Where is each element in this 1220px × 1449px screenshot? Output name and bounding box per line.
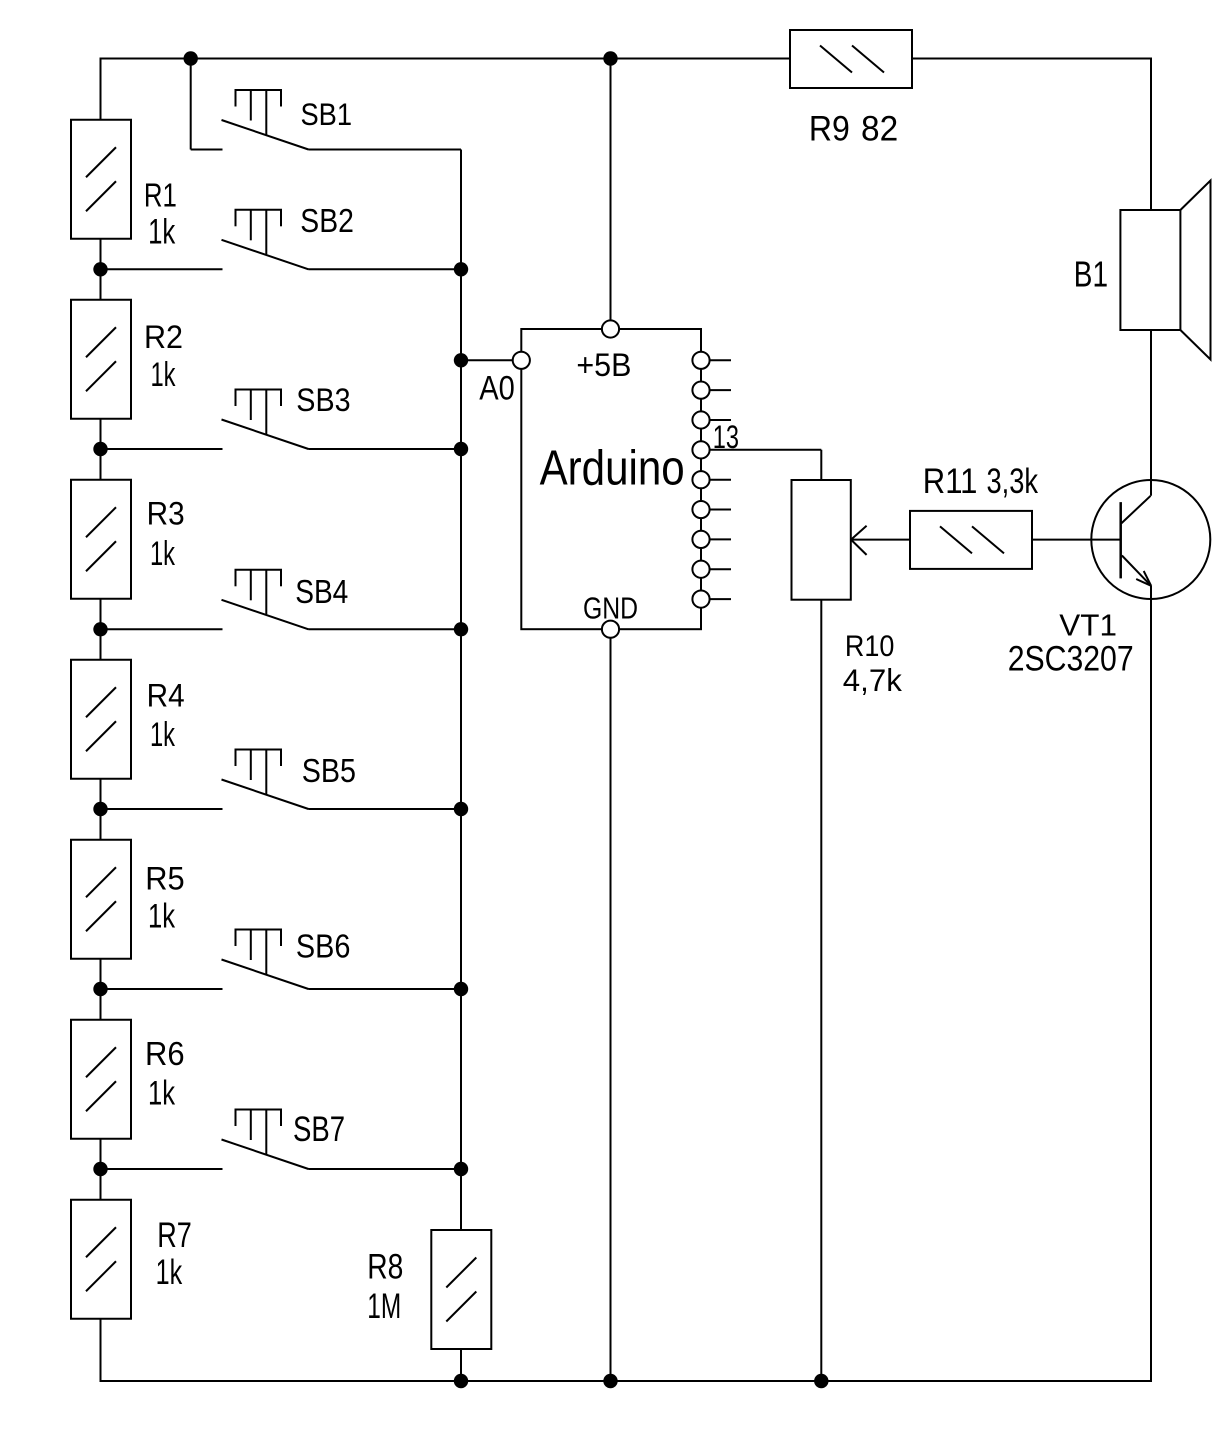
wire: R10 wiper to R11 <box>851 539 911 541</box>
resistor R1 <box>71 120 131 239</box>
label 3,3k <box>987 461 1039 501</box>
label R3 <box>147 495 185 531</box>
pin D9 <box>692 591 709 608</box>
label R8 <box>367 1247 403 1287</box>
label SB3 <box>296 381 350 418</box>
pin GND <box>602 621 619 638</box>
node: SB7 on A0 bus <box>454 1162 468 1176</box>
wire: bottom ground rail <box>100 1380 1153 1382</box>
wire: junction to SB7 contact <box>101 1168 223 1170</box>
node: SB4 on A0 bus <box>454 622 468 636</box>
pin 13 <box>692 441 709 458</box>
label VT1 <box>1059 608 1117 643</box>
wire: SB6 output to bus <box>309 988 462 990</box>
label 2SC3207 <box>1008 638 1134 678</box>
svg-text:SB7: SB7 <box>293 1109 345 1149</box>
label +5B <box>576 347 631 383</box>
pin +5B <box>602 320 619 337</box>
pushbutton SB2 <box>222 210 309 269</box>
node: R5-R6 junction <box>93 982 107 996</box>
label R1 <box>144 177 177 214</box>
wire: speaker-collector vertical <box>1150 59 1152 496</box>
svg-text:R10: R10 <box>845 630 894 664</box>
svg-text:82: 82 <box>861 110 898 149</box>
node: R2-R3 junction <box>93 442 107 456</box>
label SB7 <box>293 1109 345 1149</box>
wire: SB1 drop from +5V rail <box>191 59 223 150</box>
pushbutton SB3 <box>222 390 309 450</box>
svg-text:1k: 1k <box>156 1254 183 1292</box>
node: R4-R5 junction <box>93 802 107 816</box>
resistor R3 <box>71 480 131 599</box>
svg-text:R4: R4 <box>147 677 185 713</box>
label 1k <box>148 1075 176 1112</box>
wire: junction to SB4 contact <box>101 628 223 630</box>
label 1k <box>156 1254 183 1292</box>
svg-text:1M: 1M <box>367 1286 401 1326</box>
label GND <box>583 591 638 625</box>
transistor VT1 <box>1091 480 1210 599</box>
label SB2 <box>300 202 354 240</box>
label R9 <box>809 109 850 149</box>
wire: SB3 output to bus <box>309 448 462 450</box>
wire: A0 sense bus <box>460 150 462 1382</box>
label R4 <box>147 677 185 713</box>
wire: junction to SB2 contact <box>101 268 223 270</box>
pushbutton SB4 <box>222 570 309 630</box>
svg-text:1k: 1k <box>148 1075 176 1112</box>
node: SB1 tap on +5V rail <box>184 51 198 65</box>
wire: SB1 output to bus <box>309 149 462 151</box>
svg-text:1k: 1k <box>151 356 176 394</box>
label B1 <box>1074 254 1108 294</box>
resistor R6 <box>71 1020 131 1139</box>
wire: pin 13 to R10 <box>710 450 821 1381</box>
wire: Arduino right pin stub 3 <box>710 419 731 421</box>
svg-text:1k: 1k <box>150 535 175 573</box>
pin A0 <box>513 352 530 369</box>
svg-text:4,7k: 4,7k <box>843 663 902 698</box>
node: SB5 on A0 bus <box>454 802 468 816</box>
resistor R5 <box>71 840 131 959</box>
resistor R8 <box>431 1230 491 1349</box>
wire: Arduino right pin stub 9 <box>710 598 731 600</box>
node: R10 on ground rail <box>814 1374 828 1388</box>
resistor R7 <box>71 1200 131 1319</box>
wire: emitter to ground rail <box>1150 586 1152 1381</box>
pushbutton SB6 <box>222 930 309 990</box>
resistor R9 <box>790 30 912 88</box>
svg-text:2SC3207: 2SC3207 <box>1008 638 1134 678</box>
wire: SB4 output to bus <box>309 628 462 630</box>
label SB5 <box>302 752 356 790</box>
label R2 <box>144 319 183 355</box>
wire: A0 pin connection <box>461 359 521 361</box>
label 1k <box>148 898 176 935</box>
label 1k <box>150 535 175 573</box>
svg-text:3,3k: 3,3k <box>987 461 1039 501</box>
wire: +5V / GND drop through Arduino <box>610 59 612 1382</box>
label 1k <box>150 716 175 754</box>
svg-text:R9: R9 <box>809 109 850 149</box>
wire: +5V top rail <box>100 58 1153 60</box>
label SB6 <box>296 927 351 965</box>
wire: junction to SB5 contact <box>101 808 223 810</box>
svg-text:R7: R7 <box>157 1216 192 1255</box>
node: R1-R2 junction <box>93 262 107 276</box>
pin D6 <box>692 501 709 518</box>
node: R3-R4 junction <box>93 622 107 636</box>
svg-text:GND: GND <box>583 591 638 625</box>
svg-text:13: 13 <box>713 420 739 457</box>
speaker B1 <box>1120 181 1210 360</box>
svg-text:R1: R1 <box>144 177 177 214</box>
svg-text:A0: A0 <box>479 368 515 407</box>
wire: Arduino right pin stub 7 <box>710 538 731 540</box>
label 13 <box>713 420 739 457</box>
wire: SB5 output to bus <box>309 808 462 810</box>
wire: junction to SB3 contact <box>101 448 223 450</box>
wire: Arduino right pin stub 6 <box>710 509 731 511</box>
svg-text:B1: B1 <box>1074 254 1108 294</box>
resistor R2 <box>71 300 131 419</box>
label R5 <box>145 860 184 897</box>
label R7 <box>157 1216 192 1255</box>
label 1k <box>148 213 176 252</box>
node: +5V feed on rail <box>603 51 617 65</box>
svg-text:+5B: +5B <box>576 347 631 383</box>
wire: SB2 output to bus <box>309 268 462 270</box>
svg-text:SB3: SB3 <box>296 381 350 418</box>
IC U1 Arduino box <box>521 329 701 629</box>
label R6 <box>145 1035 185 1072</box>
label R10 <box>845 630 894 664</box>
label 82 <box>861 110 898 149</box>
label 4,7k <box>843 663 902 698</box>
wire: Arduino right pin stub 5 <box>710 479 731 481</box>
svg-text:1k: 1k <box>150 716 175 754</box>
svg-text:1k: 1k <box>148 213 176 252</box>
pin D3 <box>692 411 709 428</box>
pin D1 <box>692 352 709 369</box>
pushbutton SB5 <box>222 750 309 810</box>
node: SB3 on A0 bus <box>454 442 468 456</box>
label R11 <box>923 462 978 501</box>
pushbutton SB7 <box>222 1110 309 1170</box>
svg-text:R2: R2 <box>144 319 183 355</box>
wire: Arduino right pin stub 1 <box>710 359 731 361</box>
pin D8 <box>692 561 709 578</box>
svg-text:SB5: SB5 <box>302 752 356 790</box>
label SB4 <box>295 573 348 611</box>
svg-text:SB2: SB2 <box>300 202 354 240</box>
svg-text:SB4: SB4 <box>295 573 348 611</box>
node: GND on ground rail <box>603 1374 617 1388</box>
potentiometer R10 <box>792 480 867 600</box>
wire: R11 to VT1 base <box>1031 539 1121 541</box>
svg-text:R8: R8 <box>367 1247 403 1287</box>
svg-text:R3: R3 <box>147 495 185 531</box>
svg-text:SB6: SB6 <box>296 927 351 965</box>
node: R6-R7 junction <box>93 1162 107 1176</box>
node: R8 on ground rail <box>454 1374 468 1388</box>
svg-text:R5: R5 <box>145 860 184 897</box>
pin D5 <box>692 471 709 488</box>
node: SB2 on A0 bus <box>454 262 468 276</box>
wire: junction to SB6 contact <box>101 988 223 990</box>
svg-text:SB1: SB1 <box>301 97 353 132</box>
label Arduino <box>540 441 685 496</box>
label 1k <box>151 356 176 394</box>
svg-text:Arduino: Arduino <box>540 441 685 496</box>
resistor R4 <box>71 660 131 779</box>
wire: SB7 output to bus <box>309 1168 462 1170</box>
svg-text:1k: 1k <box>148 898 176 935</box>
node: SB6 on A0 bus <box>454 982 468 996</box>
wire: Arduino right pin stub 2 <box>710 389 731 391</box>
node: A0 tap on bus <box>454 353 468 367</box>
svg-text:R11: R11 <box>923 462 978 501</box>
wire: left resistor chain <box>100 59 102 1382</box>
wire: Arduino right pin stub 8 <box>710 568 731 570</box>
label SB1 <box>301 97 353 132</box>
svg-text:R6: R6 <box>145 1035 185 1072</box>
label A0 <box>479 368 515 407</box>
pin D7 <box>692 531 709 548</box>
resistor R11 <box>910 511 1032 569</box>
pushbutton SB1 <box>222 90 309 150</box>
pin D2 <box>692 382 709 399</box>
label 1M <box>367 1286 401 1326</box>
